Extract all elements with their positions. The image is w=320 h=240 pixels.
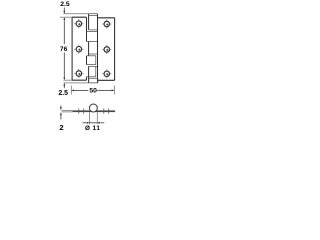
barrel diameter 11 extension lines — [90, 112, 98, 124]
screw hole center plugs — [78, 23, 108, 75]
svg-text:50: 50 — [89, 88, 97, 95]
barrel diameter 11 dimension line — [83, 122, 105, 124]
thickness 2 arrowheads — [60, 107, 62, 115]
screw hole rings (6) — [76, 21, 109, 77]
plan view leaf bar — [72, 110, 115, 112]
width 50 extension lines — [71, 86, 114, 95]
knuckle main rails — [87, 14, 98, 83]
hinge right leaf outline — [98, 18, 115, 81]
svg-text:76: 76 — [60, 46, 68, 53]
width 50 dimension line — [74, 89, 112, 91]
svg-text:2.5: 2.5 — [58, 90, 68, 97]
knuckle segment gap lines and caps — [87, 14, 98, 83]
plan view knuckle barrel circle — [89, 104, 97, 112]
extension lines for height dimensions — [60, 14, 89, 83]
hinge left leaf outline — [72, 17, 86, 80]
svg-text:2.5: 2.5 — [60, 1, 70, 8]
svg-text:2: 2 — [59, 123, 63, 132]
screw hole centreline ticks — [74, 19, 111, 78]
arrowheads of 2.5 and 76 dimensions — [63, 11, 65, 86]
thickness 2 dimension line — [60, 106, 62, 120]
barrel diameter 11 arrowheads — [87, 122, 100, 124]
svg-text:Ø 11: Ø 11 — [85, 125, 101, 132]
width 50 arrowheads — [71, 90, 114, 92]
vertical dimension line x=64.3 — [63, 8, 65, 89]
plan view screw hole ticks — [79, 108, 109, 113]
thickness 2 extension lines — [62, 111, 73, 112]
